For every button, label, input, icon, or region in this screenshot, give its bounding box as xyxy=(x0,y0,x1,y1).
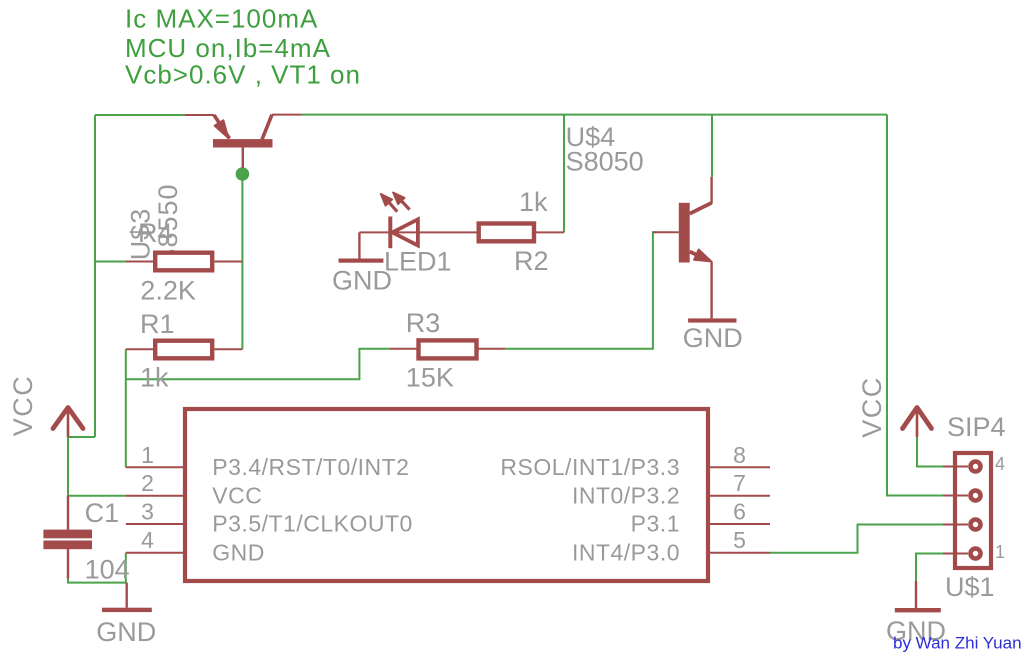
wire R1 pin stubs xyxy=(126,348,243,350)
svg-text:VCC: VCC xyxy=(212,482,262,508)
svg-text:1: 1 xyxy=(141,442,154,468)
wire VCC right to SIP4 pin4 xyxy=(917,437,943,467)
resistor R1 xyxy=(155,341,212,359)
pin 5 xyxy=(710,552,770,554)
pin 2 VCC xyxy=(126,495,183,497)
svg-text:INT0/P3.2: INT0/P3.2 xyxy=(572,482,680,508)
ground GND bottom-left xyxy=(102,583,152,613)
svg-text:U$1: U$1 xyxy=(945,572,995,602)
svg-text:by Wan Zhi Yuan: by Wan Zhi Yuan xyxy=(893,634,1022,653)
pin 1 P3.4 xyxy=(126,466,183,468)
ground GND bottom-right xyxy=(895,581,941,612)
svg-text:3: 3 xyxy=(141,499,154,525)
svg-text:P3.1: P3.1 xyxy=(631,511,680,537)
svg-text:VCC: VCC xyxy=(8,375,38,437)
pin 7 xyxy=(710,495,770,497)
svg-text:8: 8 xyxy=(733,442,746,468)
svg-text:GND: GND xyxy=(332,266,392,296)
svg-text:C1: C1 xyxy=(85,498,120,528)
svg-text:Vcb>0.6V , VT1 on: Vcb>0.6V , VT1 on xyxy=(125,60,361,90)
svg-text:R4: R4 xyxy=(138,218,173,248)
svg-text:104: 104 xyxy=(85,554,130,584)
svg-text:2.2K: 2.2K xyxy=(140,275,196,305)
connector U$1 SIP4 xyxy=(943,453,991,568)
resistor R4 xyxy=(155,253,212,271)
wire right vertical down to SIP4 pin3 xyxy=(887,115,943,496)
wire VCC left vertical xyxy=(94,115,96,437)
wire top horizontal collector net xyxy=(301,114,887,116)
wire base of U$3 down through R4 right to R1 right xyxy=(241,167,243,349)
wire MCU pin4 to GND xyxy=(125,553,127,583)
svg-text:SIP4: SIP4 xyxy=(947,412,1006,442)
wire VCC top-left horizontal xyxy=(95,114,185,116)
svg-text:INT4/P3.0: INT4/P3.0 xyxy=(572,539,680,565)
svg-text:R2: R2 xyxy=(514,246,549,276)
power VCC arrow left xyxy=(53,407,83,438)
wire R4 pin stubs xyxy=(126,261,242,263)
IC MCU box xyxy=(185,409,708,581)
note text green annotations xyxy=(125,4,361,90)
svg-text:1: 1 xyxy=(995,542,1005,562)
ground GND under U$4 xyxy=(688,318,736,322)
svg-text:15K: 15K xyxy=(406,363,454,393)
svg-text:LED1: LED1 xyxy=(384,247,452,277)
wire VCC down to MCU pin2 xyxy=(68,437,126,496)
transistor U$3 PNP S8550 xyxy=(185,115,301,168)
svg-text:6: 6 xyxy=(733,499,746,525)
transistor U$4 NPN S8050 xyxy=(653,177,712,319)
junction dot node base U$3 xyxy=(236,167,250,181)
wire branch down to R2 right xyxy=(563,115,565,233)
wire R2 right stub to net xyxy=(536,231,564,233)
wire R3 pin stubs xyxy=(390,348,505,350)
svg-text:VCC: VCC xyxy=(857,376,887,438)
wire VCC arrow left jog xyxy=(68,436,95,438)
svg-text:R3: R3 xyxy=(406,308,441,338)
svg-text:R1: R1 xyxy=(140,309,175,339)
svg-text:4: 4 xyxy=(141,527,154,553)
wire SIP4 pin1 to GND xyxy=(916,554,943,582)
svg-text:GND: GND xyxy=(96,617,156,647)
wire branch down to U$4 collector xyxy=(711,115,713,177)
svg-text:7: 7 xyxy=(733,470,746,496)
wire net to R3 left xyxy=(126,349,390,380)
wire R4 left stub to VCC rail xyxy=(95,261,126,263)
wire C1 bottom to GND node xyxy=(68,578,127,583)
svg-text:4: 4 xyxy=(995,454,1005,474)
pin 6 xyxy=(710,523,770,525)
resistor R2 xyxy=(479,224,534,242)
ground GND under LED1 xyxy=(339,232,384,262)
pin 8 xyxy=(710,466,770,468)
svg-text:S8050: S8050 xyxy=(566,147,644,177)
svg-text:GND: GND xyxy=(683,323,743,353)
svg-text:MCU on,Ib=4mA: MCU on,Ib=4mA xyxy=(125,33,331,63)
diode LED1 xyxy=(359,192,476,248)
capacitor C1 xyxy=(43,496,92,579)
wire R3 right to U$4 base xyxy=(505,232,656,348)
svg-text:5: 5 xyxy=(733,527,746,553)
svg-text:1k: 1k xyxy=(519,187,548,217)
svg-text:RSOL/INT1/P3.3: RSOL/INT1/P3.3 xyxy=(500,454,680,480)
resistor R3 xyxy=(419,340,477,358)
svg-text:1k: 1k xyxy=(140,363,169,393)
pin 3 P3.5 xyxy=(126,523,183,525)
wire MCU pin5 to SIP4 pin2 xyxy=(770,525,943,553)
svg-text:GND: GND xyxy=(212,539,265,565)
wire R1 left down to MCU pin1 xyxy=(125,349,127,467)
svg-text:Ic MAX=100mA: Ic MAX=100mA xyxy=(125,4,318,34)
power VCC arrow right xyxy=(903,407,932,438)
svg-text:P3.4/RST/T0/INT2: P3.4/RST/T0/INT2 xyxy=(212,454,409,480)
pin 4 GND xyxy=(126,552,183,554)
svg-text:2: 2 xyxy=(141,470,154,496)
svg-text:P3.5/T1/CLKOUT0: P3.5/T1/CLKOUT0 xyxy=(212,511,413,537)
